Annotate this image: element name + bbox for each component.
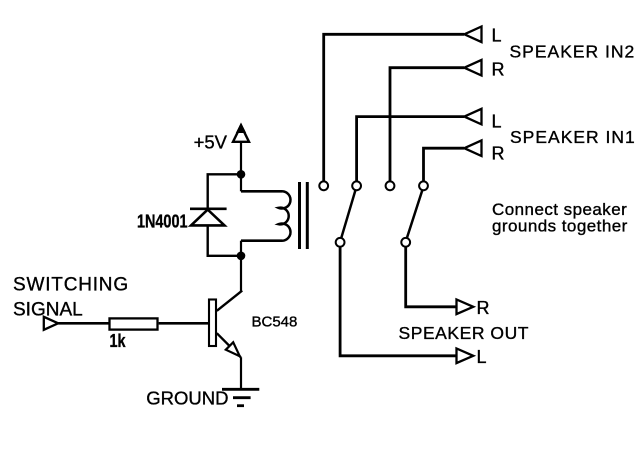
input terminal arrow (switching signal) xyxy=(44,317,58,330)
wire input arrow to resistor xyxy=(58,322,108,325)
diode D1 1N4001 (cathode bar and triangle) xyxy=(190,209,227,226)
relay contact B (to speaker in1 L) xyxy=(352,181,361,190)
svg-text:SIGNAL: SIGNAL xyxy=(13,300,83,321)
input terminal arrow R speaker in2 xyxy=(464,60,481,76)
switch arm L (contact B to pivot) xyxy=(341,190,355,238)
net label SWITCHING SIGNAL xyxy=(13,275,129,321)
wire contact C to R in2 terminal xyxy=(390,68,464,181)
ground symbol xyxy=(222,389,259,405)
wire diode bottom to lower node xyxy=(208,225,241,255)
svg-text:1N4001: 1N4001 xyxy=(137,211,188,232)
svg-text:SPEAKER OUT: SPEAKER OUT xyxy=(399,323,530,343)
svg-text:BC548: BC548 xyxy=(252,314,298,331)
wire from +5V arrow down to node xyxy=(240,142,242,174)
svg-text:+5V: +5V xyxy=(194,132,228,153)
wire coil bottom through node to collector xyxy=(240,241,242,292)
relay core bars xyxy=(300,182,308,249)
wire coil top to node xyxy=(240,174,242,191)
junction node bottom (collector/coil/diode) xyxy=(237,252,246,261)
relay contact C (to speaker in2 R) xyxy=(386,181,395,190)
svg-text:GROUND: GROUND xyxy=(146,387,228,408)
junction node top (collector/coil/diode/+5V) xyxy=(237,170,246,179)
switch pivot R xyxy=(401,238,410,247)
svg-text:SPEAKER IN1: SPEAKER IN1 xyxy=(510,127,636,147)
resistor R1 1k xyxy=(110,318,158,329)
wire resistor to base xyxy=(159,322,208,325)
svg-text:grounds together: grounds together xyxy=(492,216,628,235)
relay contact A (to speaker in2 L) xyxy=(319,181,328,190)
svg-text:1k: 1k xyxy=(110,330,127,351)
wire pivot L to speaker out L terminal xyxy=(340,247,456,356)
note text: Connect speaker grounds together xyxy=(492,200,628,236)
wire contact D to R in1 terminal xyxy=(424,148,465,181)
wire emitter to ground xyxy=(240,357,242,388)
svg-text:L: L xyxy=(492,25,502,45)
wire contact A to L in2 terminal xyxy=(324,34,464,181)
svg-text:SPEAKER IN2: SPEAKER IN2 xyxy=(510,41,636,61)
wire node to diode branch top xyxy=(208,174,241,207)
svg-text:R: R xyxy=(492,59,505,79)
svg-text:R: R xyxy=(492,143,505,163)
input terminal arrow L speaker in1 xyxy=(464,109,481,125)
input terminal arrow R speaker in1 xyxy=(464,140,481,156)
relay coil K1 xyxy=(241,191,290,240)
wire pivot R to speaker out R terminal xyxy=(406,247,457,307)
output terminal arrow L speaker out xyxy=(457,349,474,364)
switch arm R (contact D to pivot) xyxy=(407,190,423,238)
relay contact D (to speaker in1 R) xyxy=(419,181,428,190)
svg-text:L: L xyxy=(492,111,502,131)
wire contact B to L in1 terminal xyxy=(357,117,464,181)
svg-text:R: R xyxy=(477,298,490,318)
output terminal arrow R speaker out xyxy=(457,300,474,315)
transistor Q1 BC548 xyxy=(209,291,242,358)
switch pivot L xyxy=(336,238,345,247)
svg-text:SWITCHING: SWITCHING xyxy=(13,275,129,296)
input terminal arrow L speaker in2 xyxy=(464,27,481,43)
svg-text:L: L xyxy=(477,347,487,367)
power symbol +5V arrow xyxy=(233,123,249,142)
